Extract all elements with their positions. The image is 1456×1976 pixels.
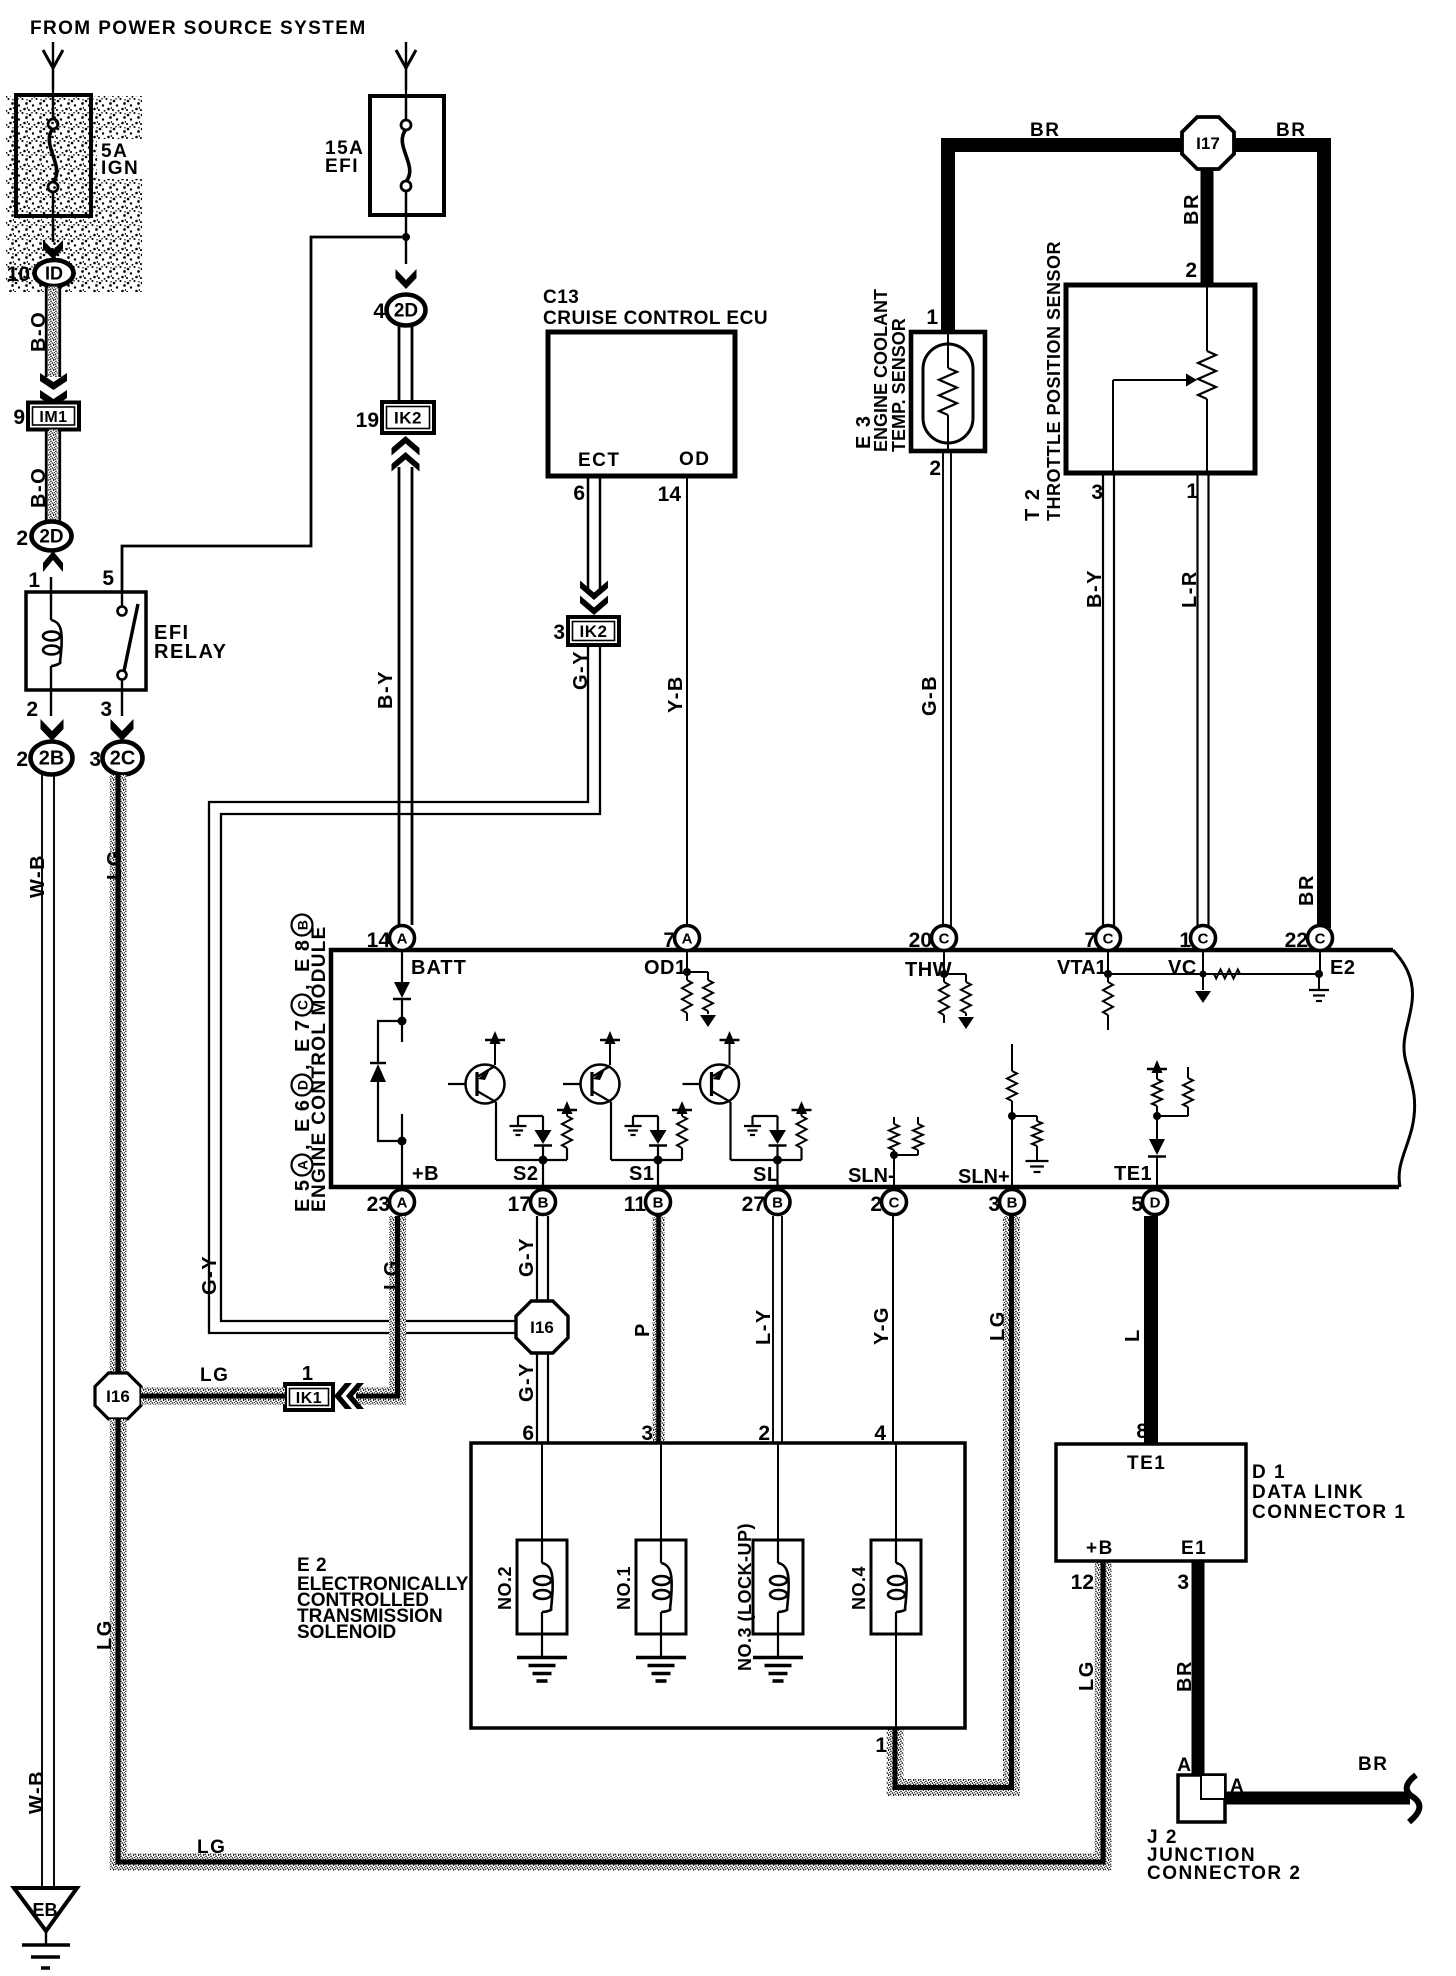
wire: power feed into 15A EFI fuse xyxy=(405,42,407,90)
ECM pin 27(B) SL xyxy=(765,1190,790,1215)
wire LG: ECM 23(A) to IK1 xyxy=(356,1216,398,1396)
svg-text:10: 10 xyxy=(7,263,30,286)
ECM pin 7(C) VTA1 xyxy=(1096,926,1121,951)
svg-text:NO.1: NO.1 xyxy=(614,1566,634,1610)
svg-text:L: L xyxy=(1122,1328,1144,1342)
transmission solenoid assembly E2 xyxy=(471,1443,965,1728)
arrow into 3 IK2 xyxy=(580,596,608,616)
svg-text:Y-B: Y-B xyxy=(665,675,687,713)
svg-text:THROTTLE POSITION SENSOR: THROTTLE POSITION SENSOR xyxy=(1044,241,1064,521)
S1 driver transistor xyxy=(581,1065,620,1104)
svg-text:2: 2 xyxy=(1185,259,1197,282)
svg-text:2D: 2D xyxy=(39,527,63,548)
svg-text:FROM POWER SOURCE SYSTEM: FROM POWER SOURCE SYSTEM xyxy=(30,18,367,39)
svg-text:C: C xyxy=(1103,931,1114,948)
svg-text:L-Y: L-Y xyxy=(753,1308,775,1345)
svg-text:2: 2 xyxy=(870,1193,882,1216)
wire Y-G: ECM 2(C) to solenoid pin 4 xyxy=(892,1216,894,1443)
svg-text:I17: I17 xyxy=(1196,134,1220,153)
svg-text:EFI: EFI xyxy=(325,156,359,177)
label 5A IGN xyxy=(97,139,144,179)
wire: relay pin 1 to 2D xyxy=(50,577,52,592)
wire: fuse to connector ID xyxy=(52,216,55,242)
wire: fuse EFI branch to relay pin 5 xyxy=(122,237,402,592)
svg-text:12: 12 xyxy=(1071,1571,1094,1594)
wire Y-B: OD pin 14 to ECM 7(A) xyxy=(686,475,688,925)
junction block 1 IK1 xyxy=(285,1384,333,1410)
ECM pin 14(A) BATT xyxy=(401,936,403,950)
S2 driver transistor xyxy=(466,1065,505,1104)
connector 10(ID) xyxy=(35,260,74,286)
arrow into 2D from relay xyxy=(43,551,63,572)
svg-text:LG: LG xyxy=(197,1837,226,1858)
wire G-Y: I16 to solenoid pin 6 xyxy=(536,1352,538,1443)
svg-text:7: 7 xyxy=(1084,929,1096,952)
svg-text:4: 4 xyxy=(373,300,385,323)
svg-text:27: 27 xyxy=(742,1193,765,1216)
wire L: ECM 5(D) to D1 TE1 xyxy=(1144,1216,1158,1444)
svg-text:C: C xyxy=(889,1195,900,1212)
svg-text:I16: I16 xyxy=(106,1387,130,1406)
SL driver transistor xyxy=(700,1065,739,1104)
wire L-R: TPS 1 to ECM 1(C) xyxy=(1196,474,1198,928)
junction block 3 IK2 xyxy=(568,617,619,645)
svg-text:W-B: W-B xyxy=(26,1770,48,1814)
svg-text:1: 1 xyxy=(28,569,40,592)
svg-text:B-O: B-O xyxy=(28,311,50,352)
connector 4(2D) xyxy=(387,295,426,326)
wire BR: D1 E1 to J2 xyxy=(1192,1561,1205,1775)
wire B-Y: IK2 to ECM pin 14 xyxy=(398,467,401,925)
wire: relay pin3 down xyxy=(121,690,123,716)
svg-text:IM1: IM1 xyxy=(39,409,67,426)
svg-text:CONNECTOR 2: CONNECTOR 2 xyxy=(1147,1863,1301,1884)
svg-text:SL: SL xyxy=(753,1164,780,1186)
svg-text:OD1: OD1 xyxy=(644,957,687,979)
shaded region around ignition fuse xyxy=(6,96,142,292)
svg-text:5: 5 xyxy=(1131,1193,1143,1216)
svg-text:VC: VC xyxy=(1168,957,1197,979)
data link connector D1 xyxy=(1056,1444,1246,1561)
wire G-Y: IK2 3 to I16 right xyxy=(221,645,600,1321)
svg-text:VTA1: VTA1 xyxy=(1057,957,1107,979)
svg-text:A: A xyxy=(397,1195,408,1212)
ECM pin 20(C) THW xyxy=(932,926,957,951)
svg-text:LG: LG xyxy=(104,849,126,880)
arrow into 2C xyxy=(111,719,134,741)
svg-text:3: 3 xyxy=(89,748,101,771)
svg-text:G-B: G-B xyxy=(919,675,941,716)
svg-text:20: 20 xyxy=(909,929,932,952)
svg-text:1: 1 xyxy=(302,1363,313,1385)
svg-text:23: 23 xyxy=(367,1193,390,1216)
junction block 19 IK2 xyxy=(382,402,434,433)
svg-text:2: 2 xyxy=(16,527,28,550)
wire B-O: IM1 to 2D xyxy=(45,430,48,522)
svg-text:NO.3 (LOCK-UP): NO.3 (LOCK-UP) xyxy=(735,1523,755,1671)
svg-text:LG: LG xyxy=(987,1310,1009,1341)
svg-text:14: 14 xyxy=(367,929,391,952)
svg-text:NO.2: NO.2 xyxy=(495,1566,515,1610)
svg-text:3: 3 xyxy=(1177,1571,1189,1594)
svg-text:B: B xyxy=(653,1195,664,1212)
svg-text:L-R: L-R xyxy=(1179,570,1201,608)
svg-text:22: 22 xyxy=(1285,929,1308,952)
svg-text:S2: S2 xyxy=(513,1163,538,1185)
svg-text:BR: BR xyxy=(1030,120,1060,141)
svg-text:B-O: B-O xyxy=(28,467,50,508)
svg-text:W-B: W-B xyxy=(27,854,49,898)
wire B-Y: 4(2D) to 19 IK2 xyxy=(398,326,401,402)
ECM pin 2(C) SLN- xyxy=(882,1190,907,1215)
svg-text:A: A xyxy=(397,931,408,948)
svg-text:T 2: T 2 xyxy=(1022,488,1044,521)
svg-text:EB: EB xyxy=(32,1900,57,1920)
svg-text:9: 9 xyxy=(13,406,25,429)
svg-text:ID: ID xyxy=(45,264,63,284)
engine coolant temp sensor E3 xyxy=(911,332,985,451)
svg-text:BR: BR xyxy=(1296,874,1318,906)
arrow into junction IM1 xyxy=(40,373,67,390)
ECM pin 1(C) VC xyxy=(1191,926,1216,951)
wire P: ECM 11(B) to solenoid pin 3 xyxy=(653,1216,665,1443)
wire: fuse to 4(2D) with branch node xyxy=(405,215,407,264)
svg-text:Y-G: Y-G xyxy=(871,1306,893,1345)
wire LG: 2C to I16 xyxy=(110,775,127,1373)
svg-text:G-Y: G-Y xyxy=(516,1362,538,1402)
connector 2(2B) xyxy=(31,742,73,775)
svg-text:3: 3 xyxy=(553,621,565,644)
wire B-Y: TPS 3 to ECM 7(C) xyxy=(1102,474,1104,928)
ECM pin 11(B) S1 xyxy=(646,1190,671,1215)
ECM connector designation E5 E6 E7 E8 xyxy=(292,915,315,1213)
svg-text:I16: I16 xyxy=(530,1318,554,1337)
svg-text:11: 11 xyxy=(624,1193,647,1216)
wire BR: E3 to I17 to ECM pin 22 xyxy=(948,145,1183,331)
svg-text:TE1: TE1 xyxy=(1127,1453,1166,1474)
svg-text:1: 1 xyxy=(1179,929,1191,952)
wire G-B: E3 pin 2 to ECM 20(C) xyxy=(942,452,944,928)
svg-text:IK2: IK2 xyxy=(580,622,608,641)
svg-text:TE1: TE1 xyxy=(1114,1163,1152,1185)
svg-text:BR: BR xyxy=(1181,193,1203,225)
svg-text:LG: LG xyxy=(381,1259,403,1290)
svg-text:B-Y: B-Y xyxy=(1084,569,1106,608)
svg-text:C13: C13 xyxy=(543,287,579,308)
arrow up on B-Y below IK2 xyxy=(392,436,420,456)
svg-text:DATA LINK: DATA LINK xyxy=(1252,1482,1364,1503)
svg-text:P: P xyxy=(632,1322,654,1337)
svg-text:2: 2 xyxy=(929,457,941,480)
svg-text:2D: 2D xyxy=(394,301,418,322)
svg-text:LG: LG xyxy=(200,1365,229,1386)
svg-text:B: B xyxy=(538,1195,549,1212)
svg-text:S1: S1 xyxy=(629,1163,654,1185)
svg-text:A: A xyxy=(1177,1755,1191,1776)
svg-text:E1: E1 xyxy=(1181,1538,1207,1559)
svg-text:B: B xyxy=(1007,1195,1018,1212)
wire LG: IK1 to I16 left xyxy=(141,1388,285,1405)
wire: power feed into 5A IGN fuse xyxy=(52,42,54,90)
svg-text:5: 5 xyxy=(102,567,114,590)
junction connector I16 right xyxy=(516,1301,568,1353)
junction connector J2 xyxy=(1178,1775,1225,1822)
svg-text:E 2: E 2 xyxy=(297,1555,327,1576)
svg-text:IK2: IK2 xyxy=(394,409,422,428)
svg-text:7: 7 xyxy=(663,929,675,952)
svg-text:A: A xyxy=(682,931,693,948)
svg-text:SLN-: SLN- xyxy=(848,1165,895,1187)
connector 2(2D) xyxy=(32,522,72,551)
svg-text:ENGINE CONTROL MODULE: ENGINE CONTROL MODULE xyxy=(309,925,330,1212)
wire LG: I16 down across bottom and up to D1 +B xyxy=(118,1419,1103,1862)
ECM pin 3(B) SLN+ xyxy=(1000,1190,1025,1215)
svg-text:BATT: BATT xyxy=(411,957,467,979)
ECM pin 23(A) +B xyxy=(390,1190,415,1215)
svg-text:BR: BR xyxy=(1358,1754,1388,1775)
wire: relay pin2 down xyxy=(50,690,52,716)
arrow into 4(2D) xyxy=(396,269,417,289)
svg-text:8: 8 xyxy=(1136,1420,1148,1443)
ECM pin 17(B) S2 xyxy=(531,1190,556,1215)
svg-text:1: 1 xyxy=(926,306,938,329)
svg-text:6: 6 xyxy=(573,482,585,505)
svg-text:19: 19 xyxy=(356,409,379,432)
svg-text:B: B xyxy=(772,1195,783,1212)
svg-text:3: 3 xyxy=(988,1193,1000,1216)
ground EB xyxy=(14,1888,77,1931)
ECM pin 7(A) OD1 xyxy=(675,926,700,951)
ECM pin 22(C) E2 xyxy=(1308,926,1333,951)
svg-text:LG: LG xyxy=(94,1619,116,1650)
svg-text:C: C xyxy=(1315,931,1326,948)
svg-text:14: 14 xyxy=(658,483,682,506)
wire L-Y: ECM 27(B) to solenoid pin 2 xyxy=(772,1216,774,1443)
wire BR: J2 to body harness xyxy=(1225,1792,1410,1805)
svg-text:D: D xyxy=(1150,1195,1161,1212)
arrow into connector ID xyxy=(43,240,63,259)
wire G-Y: ECT pin 6 down xyxy=(587,475,590,592)
svg-text:E2: E2 xyxy=(1330,957,1355,979)
wire G-Y: ECM 17(B) to I16 right xyxy=(536,1216,538,1302)
svg-text:IK1: IK1 xyxy=(296,1390,322,1407)
svg-text:ENGINE COOLANT: ENGINE COOLANT xyxy=(871,289,891,452)
svg-text:3: 3 xyxy=(100,698,112,721)
svg-text:3: 3 xyxy=(1091,481,1103,504)
svg-text:OD: OD xyxy=(679,449,711,470)
fuse 15A EFI xyxy=(370,96,444,215)
wire LG: ECM 3(B) to solenoid pin 1 xyxy=(895,1216,1012,1788)
throttle position sensor T2 xyxy=(1066,285,1255,473)
svg-text:CRUISE CONTROL ECU: CRUISE CONTROL ECU xyxy=(543,308,768,329)
svg-text:BR: BR xyxy=(1276,120,1306,141)
svg-text:2C: 2C xyxy=(110,748,136,770)
svg-text:NO.4: NO.4 xyxy=(849,1566,869,1610)
arrow into 2B xyxy=(41,719,64,741)
svg-text:CONNECTOR 1: CONNECTOR 1 xyxy=(1252,1502,1406,1523)
arrow into IK1 xyxy=(334,1383,352,1409)
svg-text:BR: BR xyxy=(1174,1660,1196,1692)
svg-text:+B: +B xyxy=(412,1163,439,1185)
svg-text:D 1: D 1 xyxy=(1252,1462,1286,1483)
svg-text:+B: +B xyxy=(1086,1538,1114,1559)
svg-text:G-Y: G-Y xyxy=(516,1237,538,1277)
fuse 5A IGN xyxy=(16,95,91,216)
junction connector I16 left xyxy=(95,1373,141,1419)
engine control module box xyxy=(331,950,1399,1187)
svg-text:2: 2 xyxy=(16,748,28,771)
junction connector I17 xyxy=(1182,117,1234,169)
svg-text:1: 1 xyxy=(875,1734,887,1757)
svg-text:SLN+: SLN+ xyxy=(958,1166,1010,1188)
svg-text:C: C xyxy=(1198,931,1209,948)
svg-text:TEMP. SENSOR: TEMP. SENSOR xyxy=(889,318,909,452)
svg-text:17: 17 xyxy=(508,1193,531,1216)
wire W-B: 2B to EB ground xyxy=(41,775,43,1888)
svg-text:C: C xyxy=(939,931,950,948)
svg-text:ECT: ECT xyxy=(578,450,621,471)
EFI relay xyxy=(26,592,146,690)
svg-text:B-Y: B-Y xyxy=(375,670,397,709)
ECM pin 5(D) TE1 xyxy=(1143,1190,1168,1215)
svg-text:LG: LG xyxy=(1076,1660,1098,1691)
connector 3(2C) xyxy=(103,742,143,775)
svg-text:2B: 2B xyxy=(39,748,65,770)
svg-text:2: 2 xyxy=(26,698,38,721)
svg-text:G-Y: G-Y xyxy=(199,1255,221,1295)
svg-text:SOLENOID: SOLENOID xyxy=(297,1622,396,1643)
svg-text:IGN: IGN xyxy=(101,158,139,179)
wire B-O: ID to IM1 xyxy=(45,287,48,378)
junction block 9 IM1 xyxy=(28,403,79,430)
svg-text:RELAY: RELAY xyxy=(154,641,227,663)
